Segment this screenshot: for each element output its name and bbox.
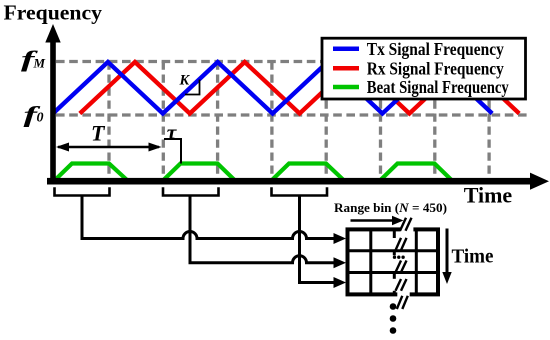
legend red sample line [333,66,359,71]
svg-text:Time: Time [464,183,513,208]
svg-text:Range bin (N = 450): Range bin (N = 450) [334,200,447,215]
white gap in matrix top edge for break mark [401,227,414,232]
arrowhead into matrix row 1 [334,233,347,244]
vertical ellipsis dot 3 below matrix [390,327,397,334]
bracket 1 under chirp 1 [55,187,110,195]
bracket 3 under chirp 3 [272,187,328,195]
wire from bracket 2 to matrix row 2 with hop [190,196,336,263]
svg-text:Rx Signal Frequency: Rx Signal Frequency [367,59,504,79]
beat signal trapezoid 1 green [55,164,127,181]
svg-text:Beat Signal Frequency: Beat Signal Frequency [367,77,509,97]
dashed vertical chirp grid lines [109,62,489,180]
bracket 2 under chirp 2 [163,187,219,195]
legend box [322,38,526,99]
range bin arrow [351,216,404,226]
ellipsis in break column [393,256,405,259]
arrowhead into matrix row 3 [334,277,347,288]
column break mark 3 [396,261,407,273]
white gap in matrix bottom edge for break mark [397,292,409,298]
matrix broken third vertical line segments [393,230,396,294]
Tx signal frequency blue triangle wave [53,62,492,114]
column break mark 4 [396,279,407,291]
matrix grid [348,229,439,294]
K slope right-angle mark [185,80,200,95]
svg-text:T: T [91,121,106,146]
svg-text:M: M [33,56,46,71]
T period double arrow [56,143,162,152]
column break mark 5 [397,296,408,309]
dashed f0 level line [56,113,528,116]
Rx signal frequency red triangle wave [80,62,519,114]
svg-text:K: K [179,72,191,88]
tau delay marker [164,139,181,164]
vertical ellipsis dot 2 below matrix [390,315,397,322]
wire from bracket 1 to matrix row 1 with hops [82,196,336,239]
svg-text:Frequency: Frequency [4,0,103,24]
time down arrow right of matrix [442,229,451,285]
beat signal trapezoid 3 green [272,164,344,181]
column break mark 2 [396,238,407,250]
beat signal trapezoid 2 green [164,164,235,181]
y-axis frequency axis [45,24,60,185]
dashed fM level line [56,60,528,63]
svg-text:Tx Signal Frequency: Tx Signal Frequency [367,39,504,59]
svg-text:0: 0 [37,110,44,125]
legend green sample line [333,85,359,90]
wire from bracket 3 to matrix row 3 [300,196,336,283]
label f0 [24,102,44,127]
column break mark 1 [400,218,412,231]
svg-text:τ: τ [167,120,178,144]
arrowhead into matrix row 2 [334,257,347,268]
x-axis time axis [47,173,549,190]
beat signal trapezoid 4 green [381,164,452,181]
legend blue sample line [333,47,359,52]
vertical ellipsis dot 1 below matrix [390,303,397,310]
label fM [21,47,46,72]
svg-text:Time: Time [452,247,494,268]
